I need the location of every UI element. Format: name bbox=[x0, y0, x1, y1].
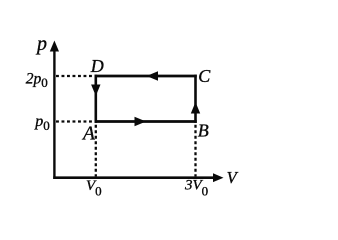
svg-text:A: A bbox=[81, 123, 95, 144]
arrow C to D (leftward) bbox=[147, 71, 159, 80]
dotted guide from 2p0 tick to D bbox=[56, 75, 94, 77]
svg-text:p: p bbox=[35, 33, 47, 55]
x-axis arrowhead bbox=[213, 173, 224, 182]
x-axis (V axis) bbox=[53, 176, 215, 179]
wire: isochor B to C (right side) bbox=[194, 75, 197, 123]
svg-text:B: B bbox=[198, 120, 209, 140]
wire: isobar A to B (bottom side) bbox=[95, 120, 197, 123]
dotted guide from B down to 3V0 tick bbox=[194, 125, 196, 177]
wire: isochor D to A (left side) bbox=[95, 75, 98, 123]
y-axis (p axis) bbox=[53, 49, 55, 179]
arrow D to A (downward) bbox=[91, 85, 100, 97]
svg-text:C: C bbox=[198, 66, 211, 86]
svg-text:D: D bbox=[90, 56, 104, 76]
wire: isobar D to C (top side) bbox=[95, 75, 197, 78]
dotted guide from p0 tick to A bbox=[56, 120, 94, 122]
arrow B to C (upward) bbox=[191, 102, 200, 114]
arrow A to B (rightward) bbox=[135, 117, 147, 126]
y-axis arrowhead bbox=[50, 41, 59, 52]
dotted guide from A down to V0 tick bbox=[95, 125, 97, 177]
